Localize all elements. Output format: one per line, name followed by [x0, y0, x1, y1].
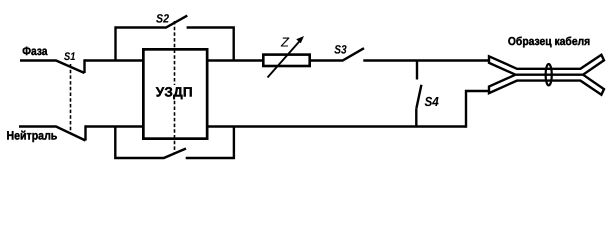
svg-text:Z: Z — [280, 35, 290, 50]
svg-text:Образец кабеля: Образец кабеля — [508, 36, 590, 48]
svg-text:S1: S1 — [64, 51, 75, 63]
svg-text:Нейтраль: Нейтраль — [7, 128, 58, 142]
svg-text:S4: S4 — [425, 94, 440, 109]
svg-text:Фаза: Фаза — [22, 44, 47, 58]
svg-text:S3: S3 — [334, 42, 347, 56]
svg-text:УЗДП: УЗДП — [156, 85, 193, 100]
svg-text:S2: S2 — [156, 11, 169, 25]
